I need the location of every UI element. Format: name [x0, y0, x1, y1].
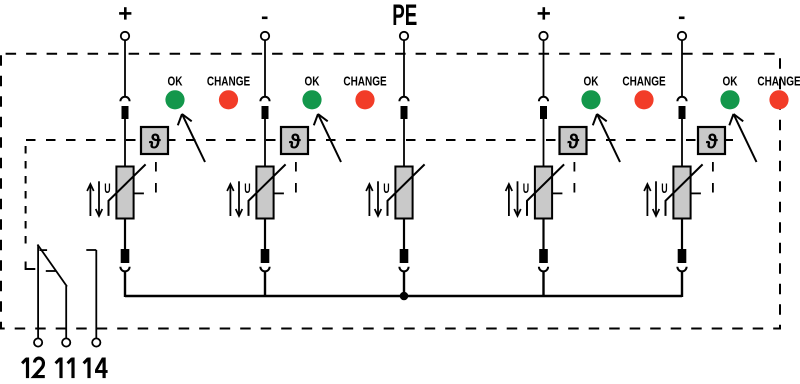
svg-text:OK: OK — [168, 76, 184, 89]
svg-text:CHANGE: CHANGE — [343, 76, 387, 89]
svg-text:OK: OK — [305, 76, 321, 89]
svg-text:CHANGE: CHANGE — [757, 76, 800, 89]
svg-text:CHANGE: CHANGE — [207, 76, 251, 89]
svg-text:OK: OK — [723, 76, 739, 89]
svg-text:PE: PE — [392, 0, 417, 32]
svg-text:OK: OK — [584, 76, 600, 89]
svg-text:CHANGE: CHANGE — [622, 76, 666, 89]
